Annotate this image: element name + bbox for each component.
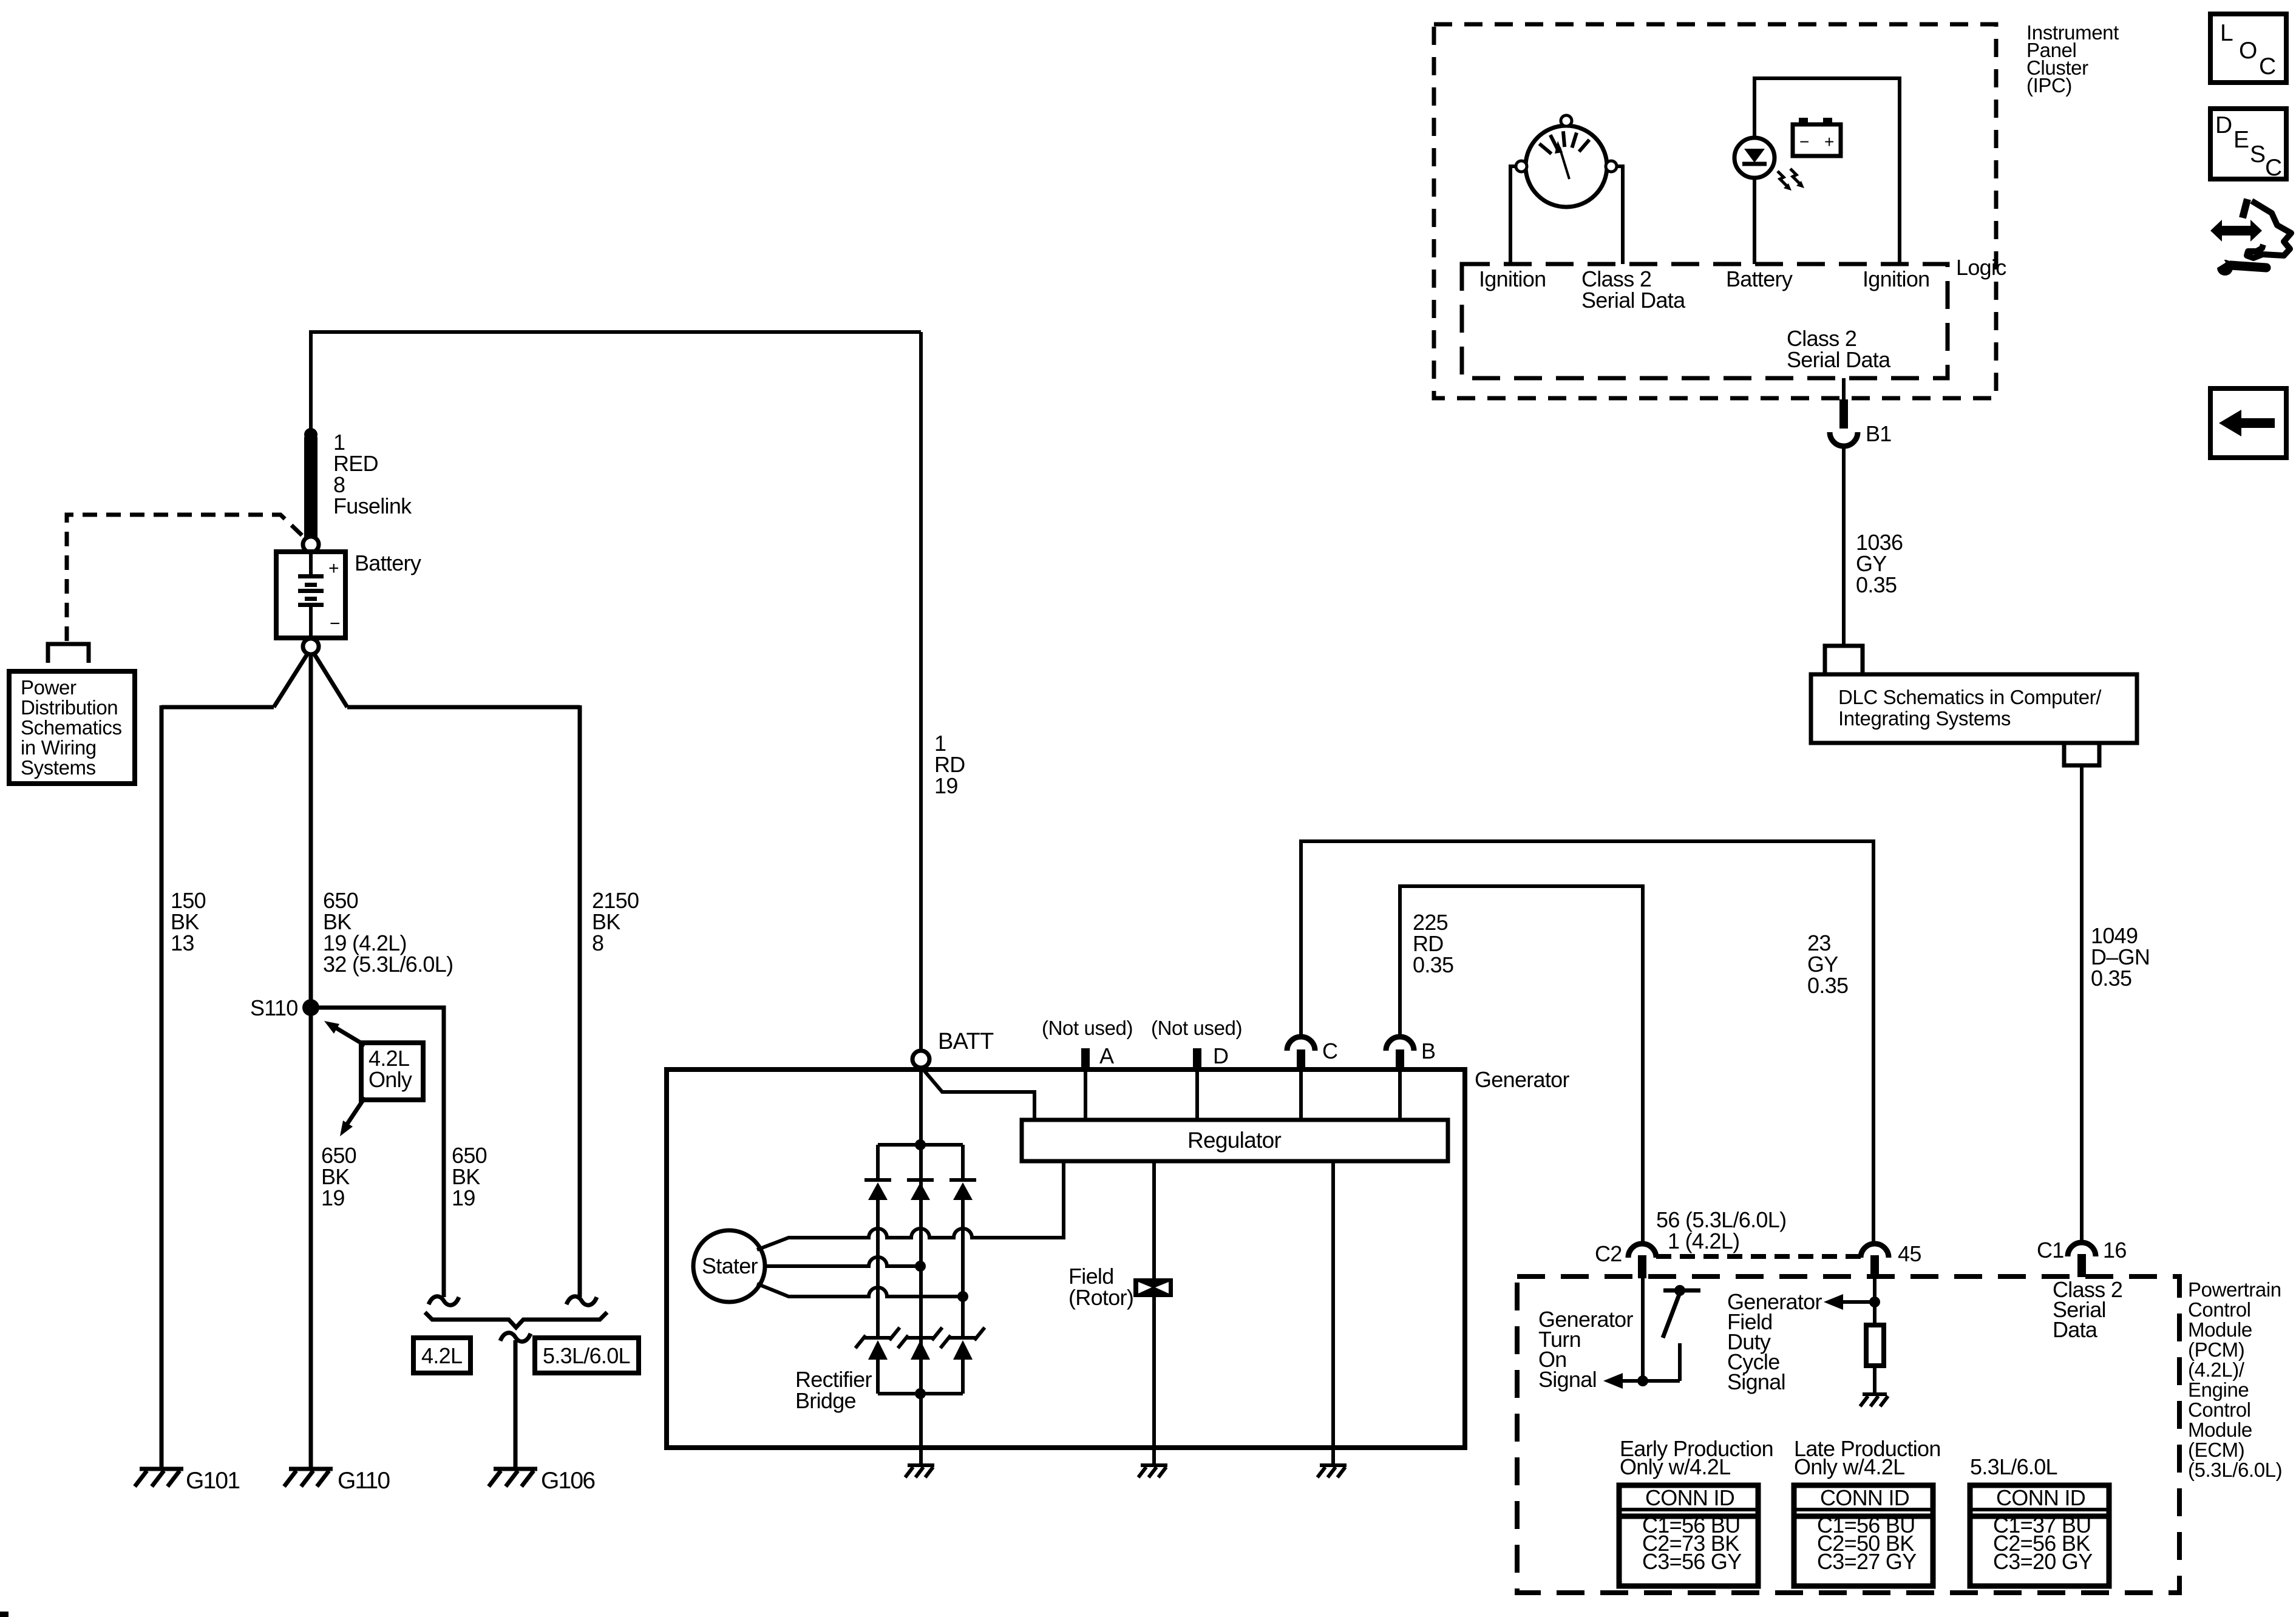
switch contact bar [1663, 1289, 1700, 1293]
svg-text:(Not used): (Not used) [1042, 1017, 1133, 1039]
wire brace to G106 [514, 1340, 518, 1468]
label 56 and 1 circuit alternates [1656, 1207, 1786, 1253]
svg-text:C: C [1322, 1039, 1337, 1063]
wire ground bus horizontal [161, 705, 580, 710]
rectifier bridge top rail [878, 1143, 963, 1147]
svg-text:19: 19 [934, 773, 958, 798]
rectifier diode upper right [949, 1145, 976, 1338]
wire generator turn on signal [1641, 1278, 1645, 1381]
pin A [1081, 1048, 1090, 1120]
wire 1049 D-GN 0.35 [2080, 765, 2084, 1242]
regulator box [1022, 1120, 1448, 1161]
battery top terminal [303, 537, 319, 552]
conn id table early production [1619, 1485, 1758, 1586]
label Field (Rotor) [1068, 1264, 1133, 1310]
label fuselink wire 1 RED 8 Fuselink [333, 430, 412, 518]
battery icon IPC [1793, 118, 1841, 156]
svg-text:Power: Power [21, 676, 76, 699]
svg-text:Logic: Logic [1956, 255, 2006, 280]
svg-text:Only w/4.2L: Only w/4.2L [1620, 1454, 1730, 1479]
svg-text:+: + [328, 558, 339, 578]
svg-text:Control: Control [2188, 1398, 2251, 1421]
label Rectifier Bridge [795, 1367, 872, 1413]
connector C2 [1628, 1244, 1656, 1278]
junction dot turn on signal [1637, 1375, 1648, 1386]
label 650 BK 19 left [321, 1143, 356, 1210]
wire field rotor [1152, 1161, 1156, 1464]
svg-text:5.3L/6.0L: 5.3L/6.0L [543, 1343, 630, 1368]
ground G106 [489, 1469, 537, 1486]
svg-text:8: 8 [592, 931, 603, 955]
box 5.3L/6.0L [535, 1338, 639, 1373]
connector B at generator [1386, 1037, 1414, 1120]
battery BAT box [276, 552, 345, 638]
svg-text:BATT: BATT [938, 1029, 994, 1054]
label 1049 D-GN 0.35 [2091, 923, 2150, 991]
rectifier bridge bottom rail [878, 1392, 963, 1395]
svg-text:B1: B1 [1866, 421, 1892, 446]
svg-text:19: 19 [452, 1185, 475, 1210]
svg-text:Module: Module [2188, 1419, 2252, 1441]
svg-text:C3=56 GY: C3=56 GY [1642, 1549, 1742, 1574]
wire 150 BK 13 to G101 [160, 705, 164, 1468]
arrow 4.2L Only to 650 BK label [340, 1097, 365, 1136]
svg-text:Signal: Signal [1538, 1367, 1597, 1392]
svg-text:(IPC): (IPC) [2026, 74, 2072, 97]
wire 2150 BK 8 branch [578, 705, 582, 1297]
svg-text:G106: G106 [541, 1468, 594, 1494]
junction dot duty cycle [1869, 1297, 1880, 1307]
svg-text:(Rotor): (Rotor) [1068, 1285, 1133, 1310]
wire 23 GY 0.35 from C to PCM 45 [1301, 841, 1873, 1244]
wire 1 RD 19 [919, 332, 923, 1051]
svg-text:D: D [1213, 1043, 1228, 1068]
wire regulator right to case ground [1331, 1161, 1335, 1464]
pin D [1193, 1048, 1201, 1120]
label 23 GY 0.35 [1807, 931, 1848, 998]
svg-text:C2: C2 [1595, 1241, 1622, 1266]
gauge needle [1555, 141, 1569, 179]
arrow generator turn on signal [1603, 1373, 1623, 1389]
label Instrument Panel Cluster (IPC) [2026, 21, 2119, 97]
svg-text:Bridge: Bridge [795, 1388, 856, 1413]
connector B1 [1830, 399, 1858, 446]
svg-text:C: C [2265, 155, 2281, 181]
wire field duty cycle [1873, 1278, 1877, 1325]
svg-text:CONN ID: CONN ID [1996, 1485, 2085, 1510]
svg-text:0.35: 0.35 [1807, 973, 1848, 998]
svg-text:(ECM): (ECM) [2188, 1439, 2244, 1461]
svg-text:G110: G110 [338, 1468, 390, 1494]
svg-text:S110: S110 [250, 995, 298, 1020]
label D and (Not used) [1151, 1017, 1242, 1068]
ground G110 [284, 1469, 333, 1486]
PCM dashed box [1517, 1276, 2179, 1593]
resistor field duty cycle [1866, 1325, 1884, 1366]
logic dashed box [1462, 264, 1948, 378]
connector bracket DLC bottom [2064, 743, 2099, 765]
svg-text:Engine: Engine [2188, 1378, 2249, 1401]
junction dot BATT rail [915, 1139, 926, 1150]
svg-text:(4.2L)/: (4.2L)/ [2188, 1358, 2245, 1381]
svg-text:(5.3L/6.0L): (5.3L/6.0L) [2188, 1459, 2282, 1481]
svg-text:Module: Module [2188, 1318, 2252, 1341]
conn id table 5.3L 6.0L [1970, 1485, 2109, 1586]
label Class 2 Serial Data [1581, 266, 1686, 313]
icon back arrow box [2210, 388, 2286, 458]
wire 650 BK to G110 [309, 654, 313, 1468]
svg-text:C3=20 GY: C3=20 GY [1993, 1549, 2093, 1574]
label 150 BK 13 [171, 888, 206, 955]
rectifier diode lower right [940, 1327, 985, 1394]
fuselink [304, 428, 318, 538]
LED charge indicator [1734, 138, 1775, 178]
label Class 2 Serial Data PCM [2053, 1277, 2122, 1342]
svg-text:16: 16 [2103, 1238, 2127, 1263]
generator box [667, 1070, 1465, 1448]
svg-text:O: O [2239, 38, 2257, 64]
label A and (Not used) [1042, 1017, 1133, 1068]
label 650 BK 19 (4.2L) 32 (5.3L/6.0L) [323, 888, 453, 977]
gauge terminal right [1606, 161, 1617, 172]
label Powertrain Control Module PCM ECM [2188, 1278, 2282, 1481]
arrow 4.2L Only to S110 [324, 1021, 365, 1045]
wire gauge right leg Class 2 [1616, 166, 1623, 264]
label 1 RD 19 [934, 731, 965, 798]
box 4.2L Only [361, 1043, 423, 1100]
ground G101 [135, 1469, 183, 1486]
svg-text:(PCM): (PCM) [2188, 1338, 2244, 1361]
label Early Production Only w/4.2L [1620, 1436, 1773, 1479]
box power distribution reference [9, 671, 135, 784]
svg-text:CONN ID: CONN ID [1820, 1485, 1909, 1510]
switch lower leg [1678, 1343, 1682, 1381]
gauge scale ticks [1540, 131, 1589, 154]
wire stator phase middle with hop [765, 1257, 920, 1266]
dashed wire C2 to 45 [1656, 1254, 1861, 1259]
connector break at 2150 BK 8 wire end [566, 1297, 597, 1305]
svg-text:Powertrain: Powertrain [2188, 1278, 2281, 1301]
icon LOC box [2210, 14, 2286, 83]
ground generator case middle [1138, 1465, 1167, 1477]
wire BATT to regulator [922, 1068, 1034, 1120]
arrow generator field duty cycle signal [1824, 1294, 1843, 1310]
LED light arrows [1778, 169, 1804, 191]
rectifier diode lower middle [898, 1327, 942, 1360]
label 4.2L Only [369, 1046, 412, 1092]
connector break at 650 BK 19 wire end [429, 1297, 459, 1305]
brace grouping engine variants [425, 1312, 607, 1327]
junction dot bottom rail [915, 1388, 926, 1399]
svg-text:Battery: Battery [1726, 266, 1793, 291]
svg-text:Regulator: Regulator [1187, 1128, 1282, 1153]
svg-text:45: 45 [1898, 1241, 1921, 1266]
svg-text:Data: Data [2053, 1317, 2098, 1342]
svg-text:CONN ID: CONN ID [1645, 1485, 1734, 1510]
field rotor winding symbol [1133, 1278, 1173, 1297]
label Generator Field Duty Cycle Signal [1727, 1289, 1822, 1394]
svg-text:Generator: Generator [1475, 1067, 1569, 1092]
wire top feed from battery to generator BATT [311, 330, 921, 334]
svg-text:L: L [2220, 20, 2233, 46]
wire turn on signal horizontal [1623, 1379, 1680, 1383]
svg-text:Ignition: Ignition [1863, 266, 1930, 291]
svg-text:Only w/4.2L: Only w/4.2L [1794, 1454, 1904, 1479]
wire gauge left leg Ignition [1510, 166, 1517, 264]
battery cell symbol [298, 552, 341, 638]
gauge terminal top [1561, 115, 1572, 126]
wire 1036 GY 0.35 [1842, 446, 1846, 646]
svg-text:in Wiring: in Wiring [21, 736, 97, 759]
rectifier diode upper middle [907, 1180, 934, 1200]
svg-text:E: E [2233, 127, 2249, 153]
connector C1 [2068, 1242, 2096, 1277]
svg-text:Schematics: Schematics [21, 716, 122, 739]
label 1036 GY 0.35 [1856, 530, 1903, 597]
svg-text:Control: Control [2188, 1298, 2251, 1321]
svg-text:C: C [2259, 53, 2275, 80]
wire stator phase top with hops [757, 1161, 1064, 1250]
svg-text:Stater: Stater [702, 1253, 758, 1278]
wire 225 RD 0.35 from B to PCM C2 [1400, 886, 1643, 1244]
svg-text:0.35: 0.35 [2091, 966, 2131, 991]
svg-text:−: − [330, 614, 341, 634]
svg-text:0.35: 0.35 [1856, 572, 1897, 597]
box 4.2L [413, 1338, 470, 1373]
icon DESC box [2210, 109, 2286, 181]
rectifier diode lower left [855, 1327, 900, 1394]
ground PCM internal [1860, 1394, 1888, 1406]
svg-text:C3=27 GY: C3=27 GY [1817, 1549, 1917, 1574]
wire stator phase bottom with hop [757, 1284, 963, 1297]
svg-text:Signal: Signal [1727, 1369, 1785, 1394]
label Late Production Only w/4.2L [1794, 1436, 1941, 1479]
junction dot bottom phase [957, 1291, 968, 1302]
svg-text:0.35: 0.35 [1413, 952, 1453, 977]
junction dot middle phase [915, 1261, 926, 1272]
gauge terminal left [1516, 161, 1527, 172]
svg-text:S: S [2250, 141, 2265, 168]
svg-text:D: D [2215, 112, 2232, 138]
label 225 RD 0.35 [1413, 910, 1453, 977]
icon jump with wrench [2210, 199, 2291, 276]
wire splice branch to 650 BK 19 right [311, 1008, 444, 1297]
label DLC Schematics in Computer Integrating Systems [1838, 686, 2102, 730]
label Generator Turn On Signal [1538, 1307, 1633, 1392]
stator circle [693, 1230, 765, 1302]
svg-text:32 (5.3L/6.0L): 32 (5.3L/6.0L) [323, 952, 453, 977]
svg-text:4.2L: 4.2L [421, 1343, 462, 1368]
connector bracket DLC top [1825, 646, 1863, 674]
svg-text:Fuselink: Fuselink [333, 493, 412, 518]
svg-text:B: B [1421, 1039, 1435, 1063]
svg-text:Serial Data: Serial Data [1581, 288, 1686, 313]
svg-text:Systems: Systems [21, 756, 96, 779]
svg-text:Ignition: Ignition [1479, 266, 1546, 291]
wire battery negative V split [274, 654, 347, 707]
switch blade [1663, 1293, 1680, 1338]
battery bottom terminal [303, 639, 319, 654]
wire LED lower leg Battery [1753, 178, 1756, 264]
connector 45 [1861, 1244, 1889, 1278]
wire BATT rail to case ground [919, 1394, 923, 1464]
ground generator case right [1317, 1465, 1347, 1477]
connector break below brace [500, 1333, 531, 1341]
label 650 BK 19 right [452, 1143, 487, 1210]
rectifier diode upper left [864, 1145, 891, 1338]
svg-text:5.3L/6.0L: 5.3L/6.0L [1970, 1454, 2057, 1479]
splice S110 [302, 999, 319, 1016]
svg-text:19: 19 [321, 1185, 345, 1210]
wire charge indicator top loop [1754, 78, 1900, 264]
svg-text:1 (4.2L): 1 (4.2L) [1668, 1229, 1739, 1253]
label Class 2 Serial Data inner [1787, 326, 1891, 372]
wire BATT main vertical inside generator [919, 1070, 923, 1394]
label Power Distribution Schematics in Wiring Systems [21, 676, 122, 779]
svg-text:+: + [1824, 132, 1834, 151]
dashed wire to power distribution reference [67, 515, 308, 641]
wire battery positive drop [309, 330, 313, 432]
svg-text:(Not used): (Not used) [1151, 1017, 1242, 1039]
page corner mark [0, 1612, 8, 1617]
wire duty cycle horizontal [1843, 1300, 1875, 1304]
box DLC reference [1811, 674, 2137, 743]
label 2150 BK 8 [592, 888, 639, 955]
svg-text:13: 13 [171, 931, 194, 955]
svg-text:Integrating Systems: Integrating Systems [1838, 707, 2011, 730]
svg-text:Only: Only [369, 1067, 412, 1092]
svg-text:−: − [1799, 132, 1809, 151]
svg-text:Distribution: Distribution [21, 696, 118, 719]
connector bracket power distribution [48, 644, 89, 663]
gauge voltmeter circle [1526, 126, 1607, 207]
junction dot switch [1674, 1285, 1685, 1296]
conn id table late production [1794, 1485, 1933, 1586]
wire class 2 serial data out of IPC [1842, 378, 1846, 399]
svg-text:Battery: Battery [355, 551, 421, 575]
wire resistor to ground [1873, 1366, 1877, 1394]
svg-text:A: A [1099, 1043, 1114, 1068]
svg-text:DLC Schematics in Computer/: DLC Schematics in Computer/ [1838, 686, 2102, 708]
terminal BATT [912, 1051, 929, 1068]
instrument panel cluster dashed box [1434, 24, 1996, 398]
svg-text:G101: G101 [186, 1468, 239, 1494]
connector C at generator [1287, 1037, 1315, 1120]
svg-text:C1: C1 [2037, 1238, 2064, 1263]
ground generator case left [905, 1465, 934, 1477]
svg-text:Serial Data: Serial Data [1787, 347, 1891, 372]
